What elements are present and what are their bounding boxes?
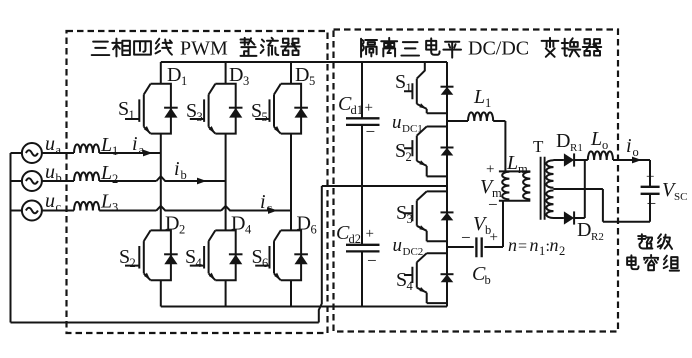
wire: neutral line to capacitor midpoint with crossover jog <box>11 186 322 323</box>
diode DR2 <box>564 211 574 224</box>
svg-text:2: 2 <box>179 223 185 237</box>
svg-text:−: − <box>461 228 471 247</box>
svg-text:1: 1 <box>539 244 545 258</box>
svg-text:S: S <box>252 246 263 268</box>
IGBT S3 with diode D3 <box>190 84 243 134</box>
wire: output to supercapacitor <box>613 160 650 222</box>
current arrow ia <box>143 150 153 157</box>
magnetizing inductance Lm winding <box>502 172 509 200</box>
title: isolated three-level DC/DC converter (Chinese) <box>361 38 601 58</box>
wire: center tap return <box>554 189 651 222</box>
IGBT S2 with diode D2 <box>125 230 178 280</box>
wire: phase b with hop over leg 1 <box>42 176 226 181</box>
svg-text:4: 4 <box>407 279 414 293</box>
wire: rectifier bottom DC bus <box>161 306 447 308</box>
dashed box: isolated three-level DC/DC converter block <box>334 30 619 332</box>
svg-text:D: D <box>229 64 243 86</box>
svg-text:2: 2 <box>406 150 412 164</box>
svg-text:2: 2 <box>559 244 565 258</box>
inductor L1 (phase a) <box>74 144 99 153</box>
svg-text:u: u <box>45 190 55 212</box>
wire: L1 tap from S1-S2 junction <box>447 121 505 171</box>
svg-text:+: + <box>490 230 498 246</box>
svg-text:1: 1 <box>406 81 412 95</box>
svg-text:c: c <box>267 201 273 215</box>
IGBT S1 with diode D1 <box>125 84 178 134</box>
wire: diode cathode junction vertical <box>584 160 586 218</box>
wire: capacitor column <box>361 62 363 307</box>
svg-text:a: a <box>139 143 145 157</box>
svg-text:=: = <box>518 238 527 255</box>
inductor Lo <box>588 151 613 160</box>
svg-text:d2: d2 <box>349 232 362 246</box>
svg-text:b: b <box>181 168 187 182</box>
svg-text:DC/DC: DC/DC <box>468 38 529 60</box>
svg-text:S: S <box>395 140 406 162</box>
inductor L1 (DC/DC) <box>468 112 493 121</box>
svg-text:o: o <box>602 138 608 152</box>
svg-text:L: L <box>590 128 602 150</box>
IGBT S4 with diode D4 <box>190 230 243 280</box>
dashed box: three-phase four-wire PWM rectifier block <box>67 31 328 333</box>
svg-text:PWM: PWM <box>180 38 228 60</box>
transformer primary winding <box>523 172 530 200</box>
svg-text:i: i <box>260 191 266 213</box>
transformer secondary winding upper <box>546 160 553 188</box>
diode DR1 <box>564 153 574 166</box>
svg-text:c: c <box>56 200 62 214</box>
svg-text:D: D <box>297 213 311 235</box>
svg-text:n: n <box>508 235 517 255</box>
svg-text:S: S <box>119 246 130 268</box>
svg-text:L: L <box>100 191 112 213</box>
inductor L2 (phase b) <box>74 172 99 181</box>
svg-text:u: u <box>45 161 55 183</box>
svg-text:5: 5 <box>262 110 268 124</box>
wire: leg 1 vertical <box>160 62 162 307</box>
wire: phase a <box>42 152 161 154</box>
svg-text:6: 6 <box>311 223 317 237</box>
svg-text:−: − <box>488 195 498 214</box>
transformer primary bars <box>499 171 530 200</box>
svg-text:DC2: DC2 <box>403 246 424 258</box>
svg-text:1: 1 <box>181 74 187 88</box>
svg-text:L: L <box>473 86 485 108</box>
svg-text:S: S <box>118 98 129 120</box>
capacitor Cd1 <box>346 118 380 125</box>
svg-text:m: m <box>518 162 528 176</box>
IGBT S6 with diode D6 <box>255 230 308 280</box>
IGBT S1 (DC/DC) with antiparallel diode <box>404 62 454 113</box>
svg-text:S: S <box>185 246 196 268</box>
svg-text:i: i <box>132 133 138 155</box>
current arrow io <box>632 157 642 164</box>
svg-text:−: − <box>366 122 376 141</box>
svg-text:D: D <box>167 64 181 86</box>
wire: leg 2 vertical <box>225 62 227 307</box>
current arrow ic <box>268 207 278 214</box>
svg-text:+: + <box>366 226 374 242</box>
svg-text:SC: SC <box>674 191 687 203</box>
svg-text:S: S <box>186 100 197 122</box>
svg-text:+: + <box>365 100 373 116</box>
svg-text:n: n <box>550 235 559 255</box>
svg-text:R2: R2 <box>591 231 604 243</box>
svg-text:D: D <box>165 213 179 235</box>
svg-text:i: i <box>174 158 180 180</box>
svg-text:a: a <box>56 143 62 157</box>
svg-text:u: u <box>393 235 403 256</box>
transformer secondary winding lower <box>546 190 553 218</box>
wire: capacitor midpoint rail <box>322 185 447 187</box>
label: supercapacitor bank (Chinese) <box>627 234 679 270</box>
svg-text:u: u <box>45 133 55 155</box>
svg-text:3: 3 <box>407 212 413 226</box>
wire: secondary bottom to rectifier diode DR2 <box>554 217 585 219</box>
svg-text:−: − <box>367 251 377 270</box>
svg-text:1: 1 <box>129 108 135 122</box>
svg-text:3: 3 <box>112 201 118 215</box>
svg-text:2: 2 <box>130 256 136 270</box>
IGBT S4 (DC/DC) with antiparallel diode <box>404 253 454 303</box>
svg-text:R1: R1 <box>570 142 583 154</box>
svg-text:S: S <box>396 202 407 224</box>
IGBT S3 (DC/DC) with antiparallel diode <box>404 191 454 241</box>
svg-text:5: 5 <box>309 74 315 88</box>
svg-text:b: b <box>485 273 491 287</box>
svg-text:D: D <box>556 130 570 152</box>
svg-text:4: 4 <box>245 223 252 237</box>
supercapacitor VSC <box>641 187 660 194</box>
wire: secondary top to rectifier diode DR1 <box>554 159 588 161</box>
wire: DC/DC switch leg vertical <box>446 62 448 307</box>
svg-text:o: o <box>633 145 639 159</box>
svg-text:d1: d1 <box>351 103 364 117</box>
svg-text:S: S <box>396 269 407 291</box>
current arrow ib <box>197 178 207 185</box>
svg-text:4: 4 <box>196 256 203 270</box>
svg-text:1: 1 <box>485 96 491 110</box>
svg-text:2: 2 <box>112 172 118 186</box>
wire: primary bottom to blocking capacitor <box>484 201 503 247</box>
svg-text:−: − <box>647 194 657 213</box>
capacitor Cd2 <box>346 245 380 252</box>
svg-text:D: D <box>577 219 591 241</box>
AC source ub <box>22 171 42 191</box>
svg-text:u: u <box>392 112 402 133</box>
svg-text:i: i <box>626 135 632 157</box>
svg-text:b: b <box>56 171 62 185</box>
svg-text:D: D <box>295 64 309 86</box>
wire: S3-S4 junction to Cb <box>447 246 474 248</box>
svg-text:S: S <box>251 100 262 122</box>
IGBT S5 with diode D5 <box>255 84 308 134</box>
svg-text:n: n <box>530 235 539 255</box>
wire: left neutral bus <box>11 153 22 323</box>
svg-text:L: L <box>100 162 112 184</box>
svg-text:D: D <box>231 213 245 235</box>
AC source uc <box>22 201 42 221</box>
wire: leg 3 vertical <box>290 62 292 307</box>
title: three-phase four-wire PWM rectifier (Chinese) <box>92 38 300 56</box>
wire: rectifier top DC bus <box>161 61 447 63</box>
svg-text:6: 6 <box>262 256 268 270</box>
wire: phase c with hops over legs 1 and 2 <box>42 206 291 211</box>
transformer T core <box>541 157 545 220</box>
svg-text:+: + <box>646 169 654 185</box>
blocking capacitor Cb <box>476 237 481 257</box>
svg-text:L: L <box>100 134 112 156</box>
svg-text:L: L <box>506 152 518 174</box>
svg-text:T: T <box>533 137 544 156</box>
IGBT S2 (DC/DC) with antiparallel diode <box>404 127 454 177</box>
svg-text:S: S <box>395 71 406 93</box>
svg-text:3: 3 <box>243 74 249 88</box>
AC source ua <box>22 143 42 163</box>
inductor L3 (phase c) <box>74 202 99 211</box>
svg-text:DC1: DC1 <box>402 123 423 135</box>
svg-text:3: 3 <box>197 110 203 124</box>
svg-text:1: 1 <box>112 144 118 158</box>
